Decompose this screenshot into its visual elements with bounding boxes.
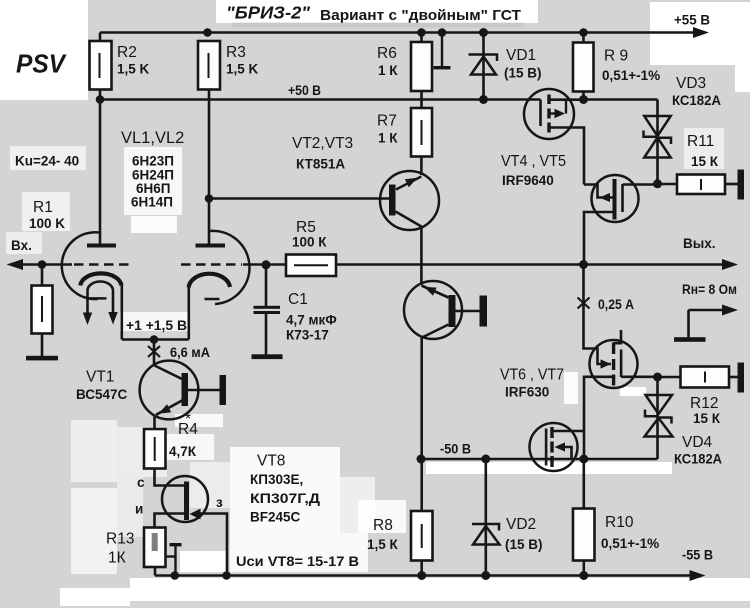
resistor R7 [411, 108, 432, 157]
svg-text:R3: R3 [226, 44, 246, 61]
node bottom gate [222, 571, 231, 580]
svg-text:R 9: R 9 [604, 48, 628, 65]
resistor R3 [198, 41, 220, 90]
svg-text:R5: R5 [296, 219, 316, 236]
node output [579, 260, 588, 269]
node R3 top [203, 28, 212, 37]
svg-text:КС182А: КС182А [674, 452, 722, 467]
wire left anode column [99, 90, 102, 244]
svg-text:4,7 мкФ: 4,7 мкФ [286, 313, 337, 328]
wire VT1 emitter to R4 [153, 415, 156, 429]
resistor R3 inner mark [208, 53, 210, 78]
arrow -55V [690, 570, 706, 581]
wire R1 input branch [41, 265, 44, 286]
wire grid dashed right tube [181, 263, 242, 266]
wire VT3 collector to -50V rail [420, 338, 423, 460]
wire R5 to output [336, 263, 728, 266]
svg-text:Rн= 8 Ом: Rн= 8 Ом [682, 282, 737, 297]
node VD1 top [479, 28, 488, 37]
wire VT7 source drop [563, 447, 572, 459]
tube VL1 left envelope [62, 232, 99, 299]
svg-text:КП303Е,: КП303Е, [250, 472, 303, 487]
wire top +55V rail [100, 31, 696, 34]
svg-text:6Н14П: 6Н14П [131, 195, 173, 210]
svg-text:C1: C1 [288, 291, 308, 308]
resistor R7 inner mark [421, 120, 423, 145]
node C1 grid [262, 260, 271, 269]
svg-text:VD3: VD3 [676, 75, 706, 92]
wire VT4 drain drop [549, 128, 584, 185]
svg-text:К73-17: К73-17 [286, 328, 329, 343]
wire grid to R5 [243, 263, 286, 266]
node bottom VD2 [481, 571, 490, 580]
wire right anode lead [208, 199, 211, 244]
node input [38, 260, 47, 269]
transistor VT2 [380, 171, 439, 230]
wire R6 top lead [420, 33, 423, 43]
resistor R11 [677, 175, 725, 195]
svg-text:+50 В: +50 В [288, 83, 321, 98]
svg-text:R2: R2 [117, 44, 137, 61]
svg-text:"БРИЗ-2": "БРИЗ-2" [226, 3, 311, 23]
ground bar R12 [738, 363, 745, 393]
svg-text:4,7К: 4,7К [169, 444, 197, 459]
wire cathode bus [122, 338, 189, 341]
wire R2 top lead [99, 33, 102, 42]
zener diode VD3 bidirectional [644, 116, 672, 158]
svg-text:(15 В): (15 В) [504, 66, 542, 81]
svg-text:6,6 мА: 6,6 мА [170, 345, 210, 360]
wire left cathode leg [121, 285, 124, 340]
tube VL2 right envelope [210, 231, 250, 304]
svg-text:-55 В: -55 В [682, 548, 713, 563]
svg-text:IRF9640: IRF9640 [502, 173, 554, 188]
wire VT1 collector [153, 340, 156, 367]
wire VT6 source to rail [584, 377, 613, 459]
svg-text:IRF630: IRF630 [505, 385, 549, 400]
resistor R12 inner mark [704, 372, 706, 383]
svg-text:1,5 К: 1,5 К [367, 537, 399, 552]
svg-text:BF245C: BF245C [250, 510, 301, 525]
node R6 top [417, 28, 426, 37]
wire VD3 column [656, 100, 659, 184]
svg-text:VT6 , VT7: VT6 , VT7 [500, 367, 564, 384]
transistor VT1 [140, 361, 220, 420]
wire R11 right lead [725, 183, 738, 186]
tube VL2 cathode arc [189, 274, 230, 288]
wire VT2 collector to VT3 [420, 227, 423, 285]
resistor R5 inner mark [294, 264, 328, 266]
resistor R8 [411, 511, 433, 561]
tube VL1 cathode arc [80, 273, 121, 285]
svg-text:R12: R12 [690, 395, 718, 412]
svg-text:-50 В: -50 В [440, 442, 471, 457]
svg-text:з: з [216, 495, 223, 510]
svg-text:0,51+-1%: 0,51+-1% [601, 536, 659, 551]
wire node R11 to resistor [658, 183, 678, 186]
wire VD1 bottom lead [482, 75, 485, 100]
wire input line solid [16, 263, 72, 266]
node R9 bottom [579, 95, 588, 104]
svg-text:и: и [135, 502, 143, 517]
wire R9 top lead [582, 33, 585, 43]
resistor R6 [411, 42, 432, 91]
ground load [674, 337, 706, 342]
resistor R4 [144, 429, 166, 469]
node stub top [438, 28, 447, 37]
svg-text:PSV: PSV [16, 49, 67, 79]
tube VL1 cathode bar [86, 297, 107, 300]
wire VD4 column [656, 377, 659, 459]
JFET VT8 [162, 476, 208, 522]
svg-text:с: с [137, 475, 145, 490]
wire -50V rail [421, 458, 658, 461]
svg-text:100 K: 100 K [29, 216, 65, 231]
capacitor C1 [254, 306, 281, 314]
wire R9 bottom lead [582, 92, 585, 100]
MOSFET VT4 [524, 89, 574, 139]
wire VT5 gate stub [623, 183, 658, 186]
svg-text:R8: R8 [373, 517, 393, 534]
wire VT6 gate stub [621, 375, 657, 378]
ground bar VT3 base [480, 296, 488, 327]
arrow input [7, 259, 24, 270]
resistor R13 inner mark [152, 533, 158, 551]
svg-text:0,51+-1%: 0,51+-1% [602, 68, 660, 83]
wire +50V rail [100, 98, 541, 101]
zener diode VD2 [472, 524, 500, 545]
resistor R1 shunt [32, 286, 53, 334]
svg-text:15 К: 15 К [693, 411, 721, 426]
wire output node to VT6 [584, 265, 612, 365]
resistor R9 [573, 43, 594, 92]
node bottom tap [171, 571, 180, 580]
wire grid dashed left tube [74, 263, 131, 266]
heater horseshoe with arrows [83, 282, 118, 326]
wire R1 ground lead [41, 334, 44, 357]
wire VT8 source to R13 [155, 514, 187, 528]
svg-text:R11: R11 [687, 133, 714, 150]
resistor R11 inner mark [700, 179, 702, 190]
current mark x output [578, 298, 590, 309]
wire R8 top lead [420, 459, 423, 511]
wire load ground arm [689, 309, 729, 312]
svg-text:R10: R10 [605, 514, 634, 531]
wire VT5 source drop to output [584, 212, 613, 265]
svg-text:VD2: VD2 [506, 516, 536, 533]
GROUNDS [26, 170, 744, 406]
node R12 VD4 [653, 373, 662, 382]
svg-text:1,5 K: 1,5 K [226, 62, 259, 77]
svg-text:R7: R7 [377, 113, 397, 130]
svg-text:VT4 , VT5: VT4 , VT5 [501, 153, 566, 170]
ground R1 [26, 356, 58, 361]
svg-text:1 К: 1 К [378, 131, 398, 146]
wire node R12 to resistor [658, 376, 681, 379]
wire R7 to VT2 emitter [420, 157, 423, 176]
ground bar R11 [738, 170, 745, 200]
TUBES VL1 VL2 [62, 231, 250, 304]
svg-text:+1 +1,5 В: +1 +1,5 В [126, 318, 187, 333]
wire R10 top lead [582, 459, 585, 509]
tube VL2 anode plate [196, 244, 226, 248]
tube VL2 cathode bar [205, 298, 220, 301]
svg-text:VD1: VD1 [506, 47, 536, 64]
svg-text:+55 В: +55 В [674, 13, 710, 28]
wire VD2 top lead [484, 459, 487, 545]
wire VD2 bottom lead [484, 545, 487, 576]
svg-text:*: * [185, 411, 191, 428]
svg-text:0,25 А: 0,25 А [598, 297, 634, 312]
node R2 bottom [96, 95, 105, 104]
zener diode VD4 bidirectional [645, 395, 673, 437]
node cathode [150, 335, 159, 344]
arrow load ground [722, 305, 738, 316]
wire R3 bottom to node A [208, 90, 211, 199]
wire R4 to VT8 drain [155, 469, 187, 486]
svg-text:КС182А: КС182А [672, 93, 721, 108]
resistor R4 inner mark [154, 437, 156, 461]
wire bottom -55V rail [155, 574, 694, 577]
resistor R8 inner mark [421, 524, 423, 548]
svg-text:VT2,VT3: VT2,VT3 [292, 135, 353, 152]
wire VT5 arrow feed [584, 185, 613, 198]
svg-text:R6: R6 [377, 45, 397, 62]
node R9 top [579, 28, 588, 37]
wire R13 bottom lead [154, 567, 157, 576]
ground C1 [252, 354, 283, 359]
wire right cathode leg [188, 287, 191, 340]
svg-text:VT8: VT8 [257, 453, 285, 470]
wire C1 ground lead [265, 314, 268, 355]
node R3 anode [205, 194, 214, 203]
select tap near R13 [166, 543, 182, 576]
wire R6-R7 link [420, 91, 423, 108]
svg-text:(15 В): (15 В) [505, 537, 543, 552]
wire VT7 drain stub [552, 430, 584, 433]
svg-text:1,5 K: 1,5 K [117, 62, 150, 77]
wire R10 bottom lead [582, 561, 585, 576]
svg-text:ВС547С: ВС547С [76, 387, 128, 402]
node -50V R10 [579, 455, 588, 464]
svg-text:15 К: 15 К [691, 154, 719, 169]
resistor R10 [573, 509, 595, 561]
resistor R13 [144, 528, 166, 568]
MOSFET VT7 [530, 423, 578, 471]
wire VT8 gate drop [199, 514, 227, 576]
transistor VT3 [404, 281, 480, 339]
zener diode VD1 [469, 55, 498, 75]
svg-text:Вых.: Вых. [683, 236, 716, 251]
arrow +55V [693, 27, 709, 38]
svg-text:Вх.: Вх. [11, 238, 32, 253]
wire node A to VT2 base [209, 197, 390, 200]
MOSFET VT5 [592, 175, 639, 222]
select stub near R6 [434, 33, 451, 70]
svg-text:Uси VT8= 15-17 В: Uси VT8= 15-17 В [236, 554, 359, 569]
svg-text:R1: R1 [33, 199, 53, 216]
wire R9 node to VD3 corner [584, 98, 658, 101]
svg-text:VL1,VL2: VL1,VL2 [121, 129, 184, 147]
svg-text:КП307Г,Д: КП307Г,Д [250, 491, 320, 506]
node bottom R10 [579, 571, 588, 580]
node -50V VT3 [417, 455, 426, 464]
wire VT4 source stub to R9 node [549, 98, 584, 101]
svg-text:Ku=24- 40: Ku=24- 40 [15, 154, 79, 169]
MOSFET VT6 [590, 340, 638, 388]
wire C1 branch [265, 265, 268, 307]
resistor R5 [286, 255, 336, 277]
svg-text:КТ851А: КТ851А [296, 157, 345, 172]
svg-text:VD4: VD4 [682, 434, 713, 451]
resistor R1 inner mark [41, 296, 43, 322]
node bottom R8 [417, 571, 426, 580]
node R11 VD3 [653, 179, 662, 188]
svg-text:6Н23П: 6Н23П [132, 154, 174, 169]
resistor R12 [681, 367, 730, 388]
wire VD1 top lead [482, 33, 485, 75]
wire R12 right lead [729, 376, 738, 379]
svg-text:VT1: VT1 [86, 369, 114, 386]
resistor R2 inner mark [99, 53, 101, 78]
current mark x VT1 [148, 346, 160, 357]
svg-text:1 К: 1 К [378, 63, 398, 78]
wire R8 bottom lead [420, 561, 423, 576]
tube VL1 anode plate [87, 244, 116, 248]
wire VT6 top stub [614, 330, 621, 343]
node -50V VD2 [481, 455, 490, 464]
resistor R2 [90, 41, 112, 90]
ground bar VT1 base [220, 375, 227, 405]
arrow output [722, 259, 738, 270]
svg-text:R13: R13 [106, 531, 134, 548]
svg-text:Вариант с "двойным" ГСТ: Вариант с "двойным" ГСТ [320, 7, 521, 24]
svg-text:100 К: 100 К [292, 235, 327, 250]
svg-text:1К: 1К [108, 550, 126, 567]
node VD1 bottom [479, 95, 488, 104]
